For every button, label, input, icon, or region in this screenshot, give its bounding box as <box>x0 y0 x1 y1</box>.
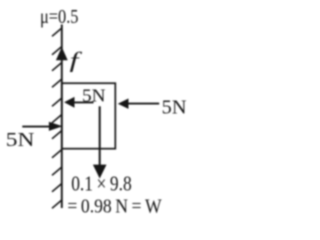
svg-text:= 0.98 N = W: = 0.98 N = W <box>67 195 162 217</box>
svg-text:μ=0.5: μ=0.5 <box>40 6 79 28</box>
svg-text:5N: 5N <box>82 86 106 106</box>
svg-text:5N: 5N <box>6 129 35 151</box>
svg-text:0.1 × 9.8: 0.1 × 9.8 <box>71 172 132 196</box>
svg-text:5N: 5N <box>162 98 187 119</box>
